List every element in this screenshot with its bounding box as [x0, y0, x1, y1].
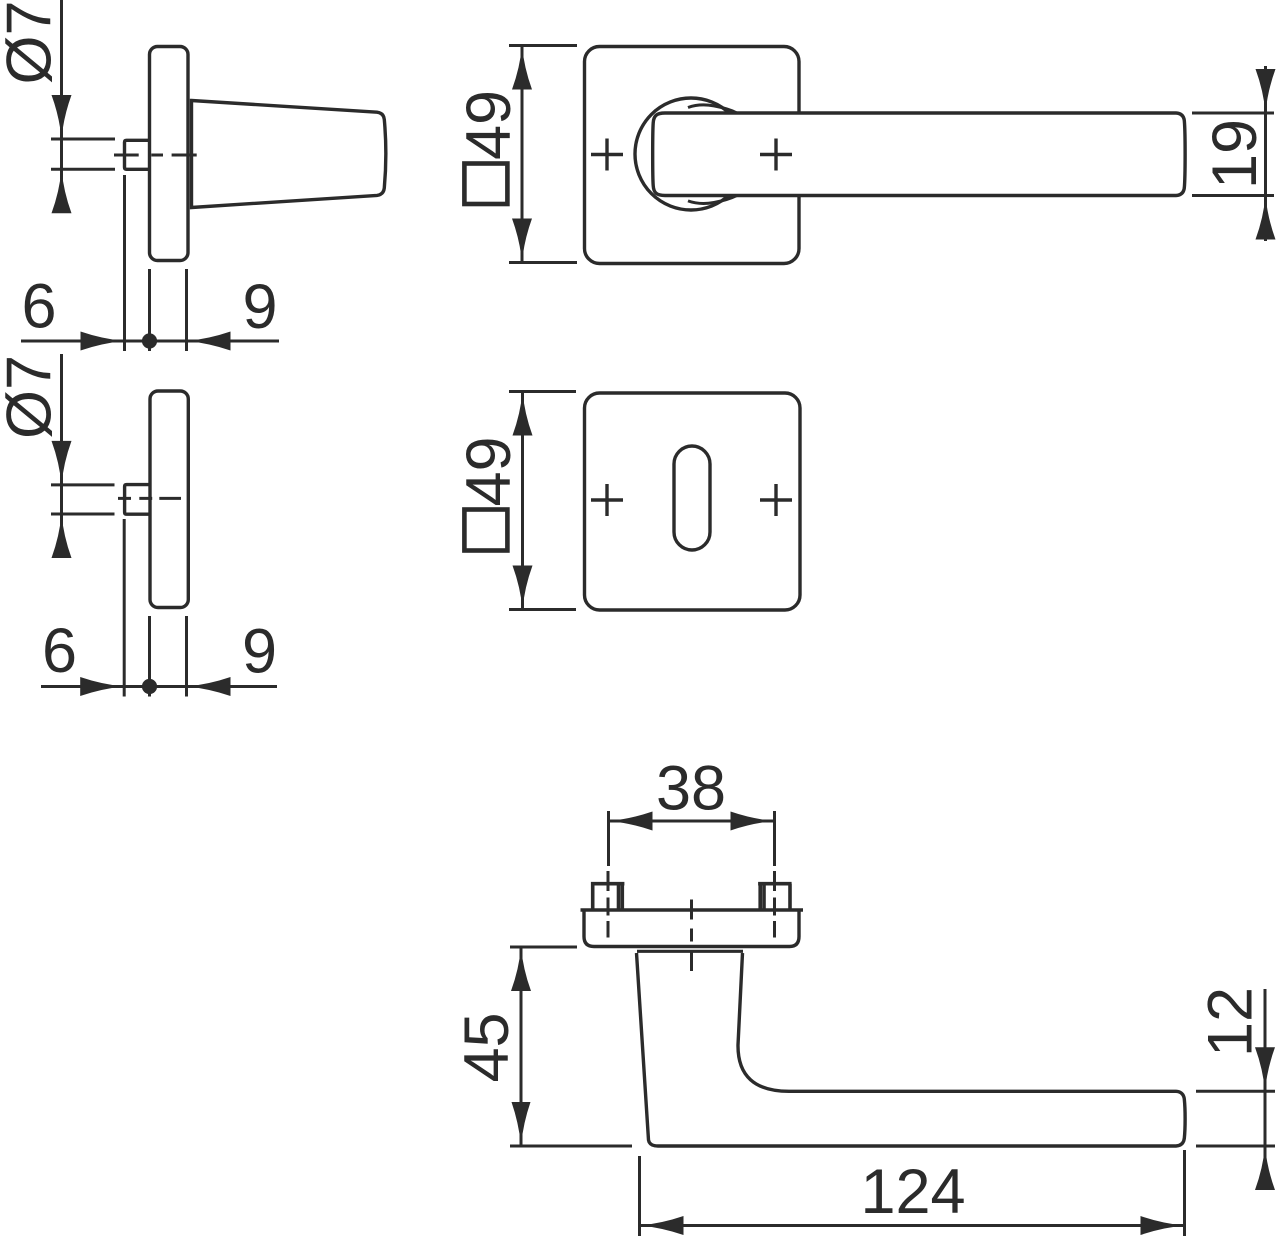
- svg-text:19: 19: [1200, 119, 1270, 189]
- svg-text:45: 45: [452, 1012, 522, 1082]
- svg-text:124: 124: [860, 1157, 965, 1227]
- svg-text:49: 49: [454, 90, 524, 160]
- svg-text:38: 38: [656, 754, 726, 824]
- svg-text:49: 49: [454, 436, 524, 506]
- svg-text:6: 6: [42, 616, 77, 686]
- svg-text:Ø7: Ø7: [0, 0, 65, 84]
- svg-text:9: 9: [242, 272, 277, 342]
- svg-text:6: 6: [21, 272, 56, 342]
- svg-text:9: 9: [242, 617, 277, 687]
- svg-text:12: 12: [1196, 987, 1266, 1057]
- svg-text:Ø7: Ø7: [0, 355, 65, 439]
